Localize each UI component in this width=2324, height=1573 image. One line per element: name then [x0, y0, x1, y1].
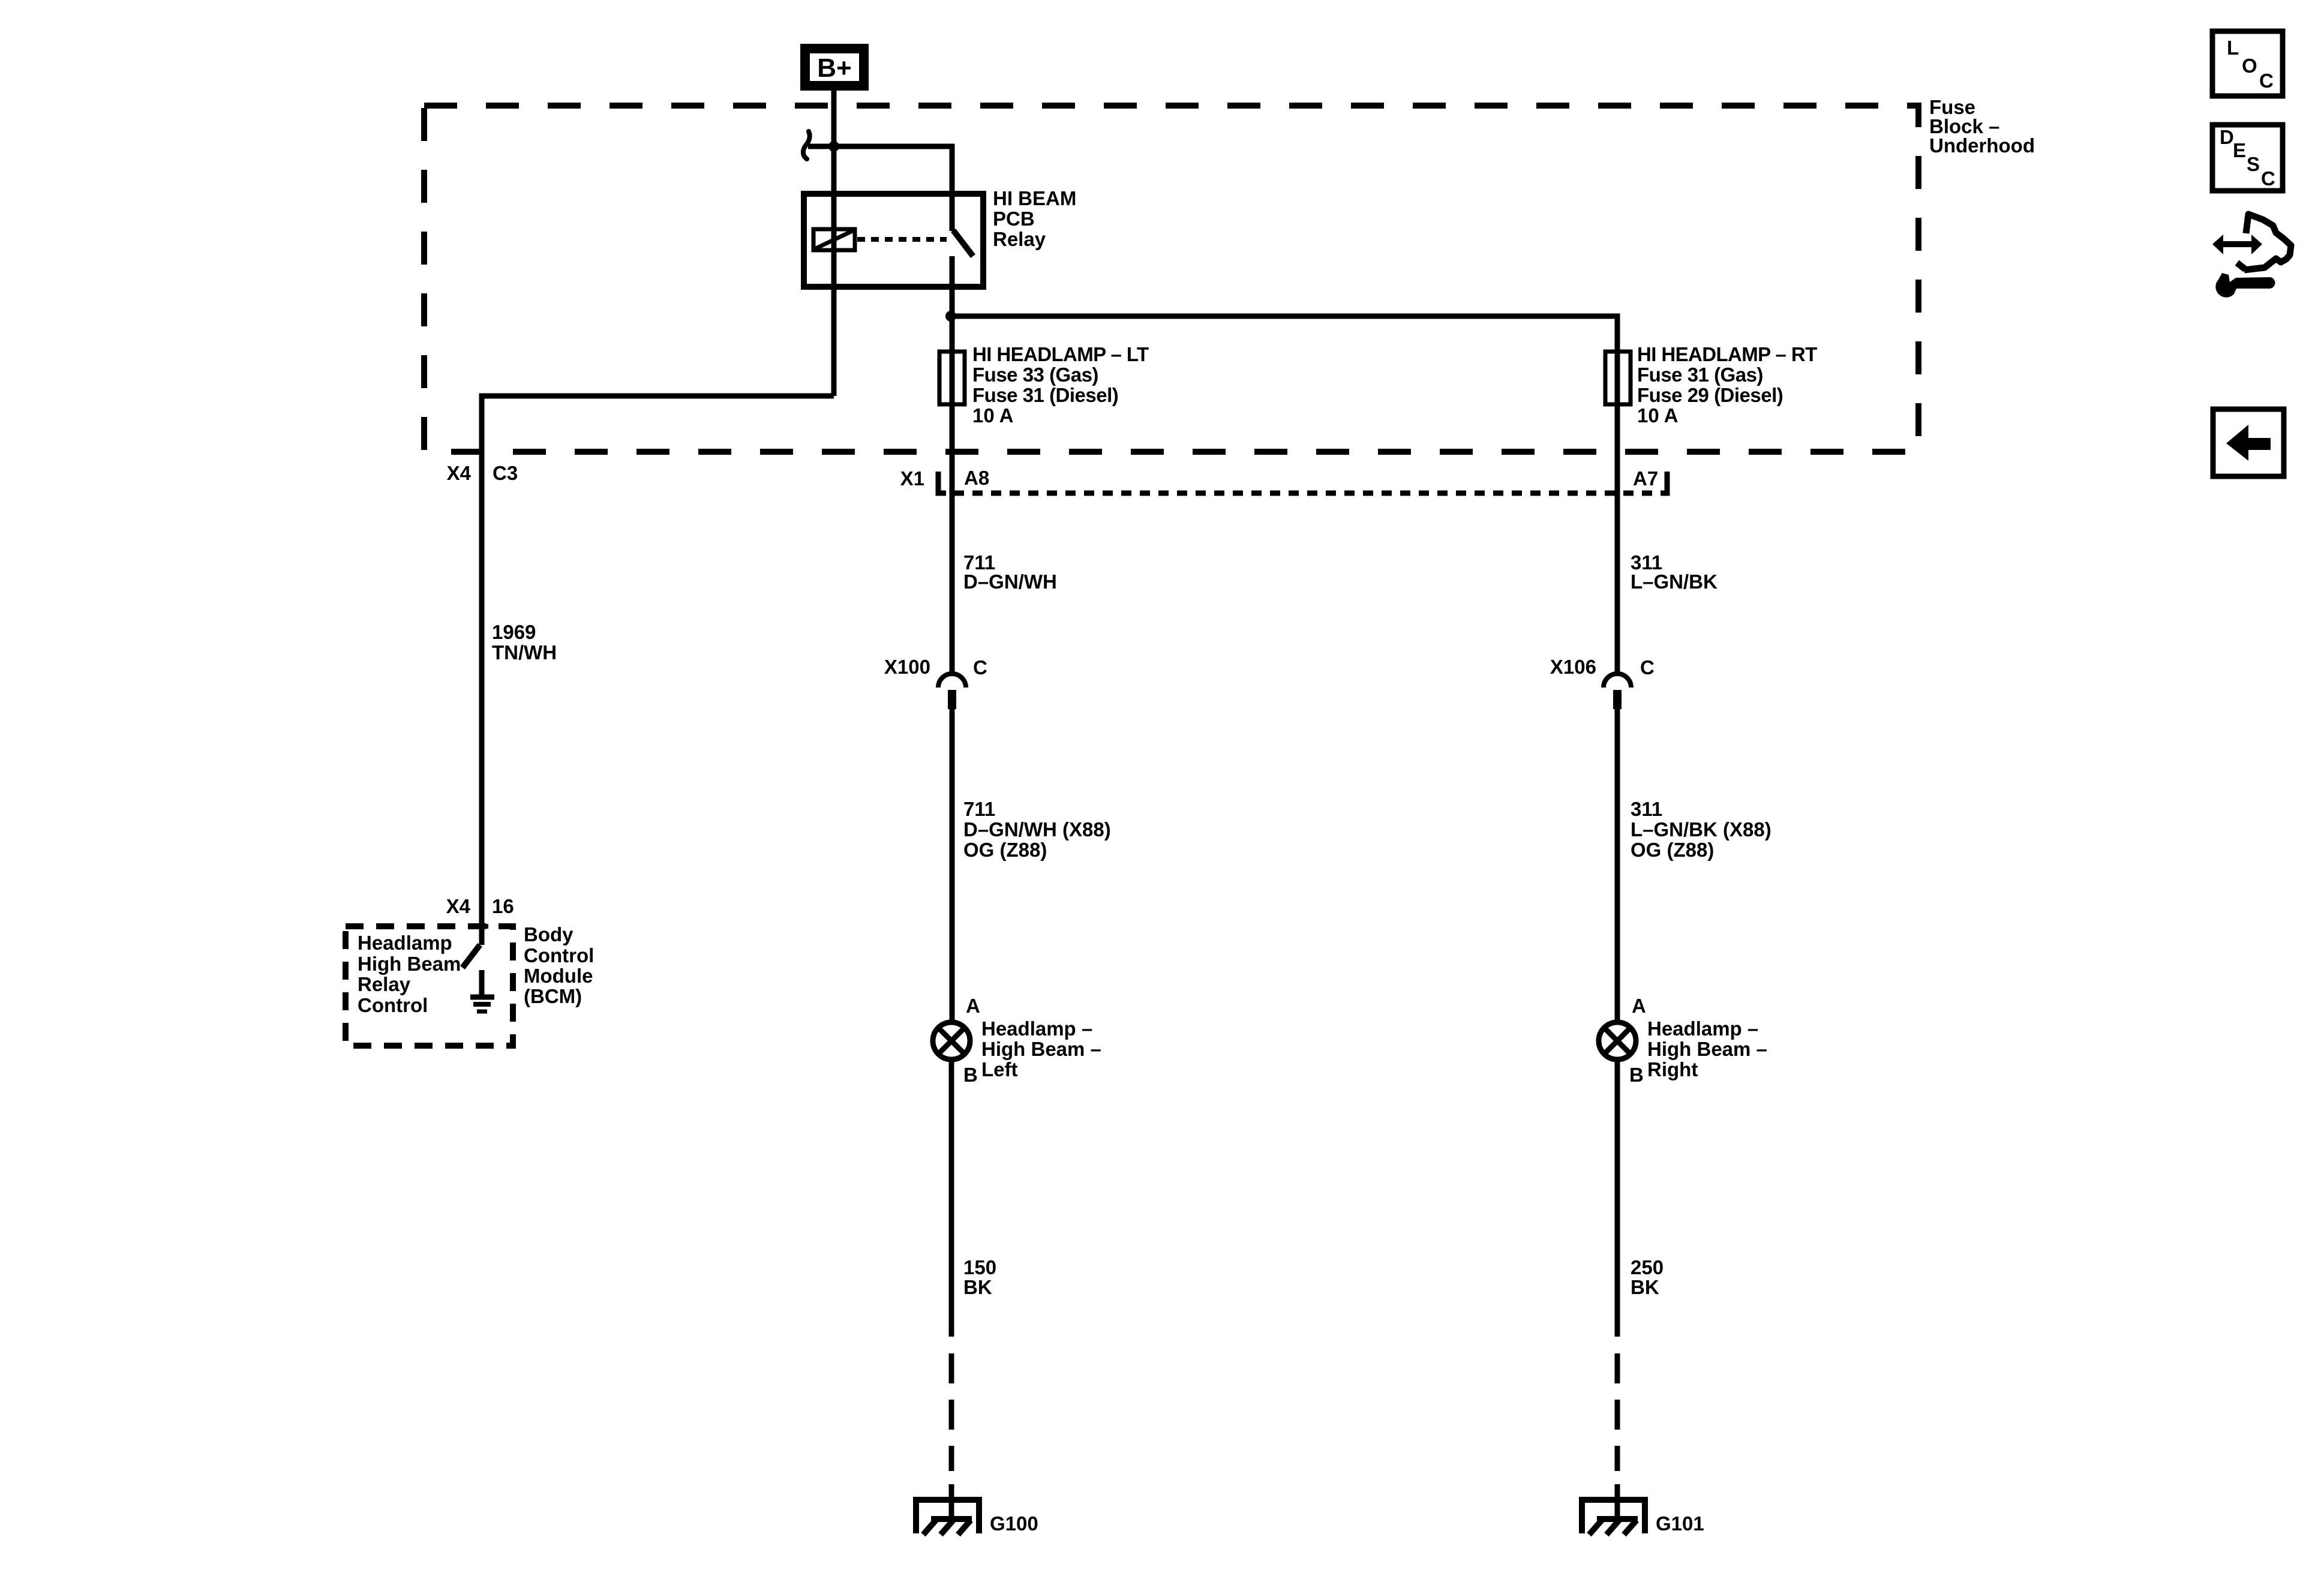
svg-text:C: C	[973, 656, 987, 679]
icon back arrow	[2213, 409, 2284, 476]
svg-text:BK: BK	[1631, 1276, 1659, 1298]
svg-text:O: O	[2242, 55, 2257, 77]
svg-text:B+: B+	[817, 53, 851, 83]
dashed ground wire right	[1615, 1353, 1620, 1471]
svg-text:B: B	[963, 1064, 978, 1086]
icon LOC	[2212, 31, 2283, 96]
svg-text:Headlamp: Headlamp	[358, 932, 452, 954]
svg-text:250: 250	[1631, 1256, 1664, 1278]
svg-text:10 A: 10 A	[1637, 404, 1678, 427]
label wire 711 D-GN/WH	[963, 551, 1057, 593]
ground G100	[913, 1497, 982, 1535]
svg-text:S: S	[2247, 153, 2260, 175]
svg-text:L–GN/BK (X88): L–GN/BK (X88)	[1631, 818, 1771, 840]
svg-text:16: 16	[492, 895, 514, 917]
svg-text:X4: X4	[447, 462, 472, 484]
wire switch to output junction, down through left fuse to X100	[950, 256, 955, 673]
svg-text:TN/WH: TN/WH	[492, 641, 557, 664]
connector line X1 A8 A7 dotted	[954, 491, 1654, 496]
svg-text:A8: A8	[964, 467, 989, 489]
wrench	[2215, 273, 2275, 298]
label wire 250 BK	[1631, 1256, 1664, 1298]
power node B+	[800, 44, 869, 91]
label fuse right	[1637, 343, 1817, 427]
connector outline	[2244, 214, 2291, 270]
junction dot at B+ branch	[828, 141, 839, 152]
svg-text:BK: BK	[963, 1276, 992, 1298]
wire stub curl to junction	[808, 144, 834, 149]
svg-text:C: C	[1640, 656, 1655, 679]
label wire 150 BK	[963, 1256, 996, 1298]
svg-text:Control: Control	[524, 944, 594, 966]
svg-text:Fuse 31 (Diesel): Fuse 31 (Diesel)	[972, 384, 1118, 406]
label wire 711 D-GN/WH (X88) OG (Z88)	[963, 798, 1111, 861]
connector X106	[1604, 674, 1631, 709]
wire X100 to left bulb	[950, 709, 955, 1022]
svg-text:A7: A7	[1633, 467, 1658, 490]
svg-text:OG (Z88): OG (Z88)	[1631, 839, 1714, 861]
label BCM	[524, 923, 594, 1007]
svg-text:D–GN/WH (X88): D–GN/WH (X88)	[963, 818, 1111, 840]
labels X1 A8 A7	[900, 467, 1659, 490]
wire relay coil to BCM	[482, 396, 834, 945]
labels X106 C	[1550, 656, 1655, 679]
svg-text:A: A	[1632, 995, 1646, 1017]
icon harness repair (arrow, connector outline, wrench)	[2212, 214, 2291, 298]
wire stub into ground left	[949, 1484, 954, 1520]
svg-text:High Beam –: High Beam –	[981, 1038, 1101, 1060]
connector X100	[938, 674, 966, 709]
svg-text:711: 711	[963, 798, 995, 820]
label bulb left	[981, 1017, 1101, 1080]
label relay	[993, 187, 1076, 250]
ground G101	[1579, 1497, 1648, 1535]
svg-text:HI BEAM: HI BEAM	[993, 187, 1076, 209]
wire stub into ground right	[1615, 1484, 1620, 1520]
fuse 33 left	[939, 352, 965, 404]
svg-text:Relay: Relay	[358, 973, 411, 995]
relay actuation dashed link	[857, 237, 947, 242]
svg-text:E: E	[2233, 139, 2246, 161]
relay box HI BEAM PCB	[804, 194, 983, 287]
pin tick at BCM	[470, 924, 488, 929]
svg-text:1969: 1969	[492, 621, 536, 643]
svg-text:Left: Left	[981, 1058, 1018, 1080]
svg-text:OG (Z88): OG (Z88)	[963, 839, 1047, 861]
bracket X1	[938, 472, 946, 493]
label fuse block underhood	[1929, 96, 2035, 157]
label wire 1969 TN/WH	[492, 621, 557, 664]
svg-text:Fuse 29 (Diesel): Fuse 29 (Diesel)	[1637, 384, 1783, 406]
label wire 311 L-GN/BK (X88) OG (Z88)	[1631, 798, 1771, 861]
label bulb right	[1647, 1017, 1767, 1080]
wire branch to right fuse, down to X106	[952, 316, 1617, 673]
svg-text:A: A	[966, 995, 980, 1017]
svg-text:Relay: Relay	[993, 228, 1046, 250]
svg-text:G100: G100	[990, 1512, 1038, 1535]
labels X100 C	[884, 656, 987, 679]
svg-text:High Beam –: High Beam –	[1647, 1038, 1767, 1060]
svg-text:X1: X1	[900, 467, 924, 490]
svg-text:C3: C3	[493, 462, 518, 484]
wire B+ down through relay coil	[831, 91, 837, 396]
bulb headlamp high beam right	[1599, 1022, 1636, 1059]
svg-text:D–GN/WH: D–GN/WH	[963, 571, 1057, 593]
svg-text:HI HEADLAMP – LT: HI HEADLAMP – LT	[972, 343, 1149, 365]
svg-text:HI HEADLAMP – RT: HI HEADLAMP – RT	[1637, 343, 1817, 365]
label connector X4 16 at BCM	[446, 895, 514, 917]
svg-text:Module: Module	[524, 965, 593, 987]
svg-text:Fuse 33 (Gas): Fuse 33 (Gas)	[972, 364, 1098, 386]
svg-text:(BCM): (BCM)	[524, 985, 582, 1007]
svg-text:Fuse 31 (Gas): Fuse 31 (Gas)	[1637, 364, 1763, 386]
svg-text:Body: Body	[524, 923, 574, 945]
BCM dashed box	[346, 926, 513, 1046]
svg-text:X106: X106	[1550, 656, 1596, 678]
svg-text:150: 150	[963, 1256, 996, 1278]
svg-text:X100: X100	[884, 656, 930, 678]
BCM internal ground	[470, 970, 494, 1011]
relay switch blade	[953, 230, 973, 256]
svg-text:D: D	[2220, 126, 2234, 148]
svg-text:High Beam: High Beam	[358, 953, 461, 975]
svg-text:Headlamp –: Headlamp –	[981, 1017, 1092, 1040]
svg-text:Right: Right	[1647, 1058, 1698, 1080]
double arrow	[2212, 235, 2262, 254]
connector outline stub	[2237, 263, 2245, 269]
svg-text:Control: Control	[358, 994, 428, 1016]
wire junction to relay switch fixed contact	[834, 146, 952, 231]
wire X106 to right bulb	[1615, 709, 1620, 1022]
icon DESC	[2212, 125, 2283, 191]
svg-text:10 A: 10 A	[972, 404, 1013, 427]
svg-text:C: C	[2261, 167, 2275, 190]
svg-text:L: L	[2227, 37, 2239, 59]
bracket A7	[1661, 472, 1667, 493]
label connector X4 C3	[447, 462, 518, 484]
fuse block underhood dashed box	[424, 106, 1918, 452]
wire bulb right to ground lead	[1615, 1059, 1620, 1337]
dashed ground wire left	[949, 1353, 954, 1471]
BCM switch blade	[463, 945, 480, 968]
fuse 31 right	[1605, 352, 1631, 404]
label fuse left	[972, 343, 1149, 427]
svg-text:PCB: PCB	[993, 208, 1035, 230]
label BCM function	[358, 932, 461, 1016]
bulb headlamp high beam left	[933, 1022, 970, 1059]
relay coil	[813, 229, 855, 250]
svg-text:Headlamp –: Headlamp –	[1647, 1017, 1758, 1040]
svg-text:G101: G101	[1656, 1512, 1704, 1535]
junction dot relay output	[945, 311, 956, 322]
svg-text:Underhood: Underhood	[1929, 134, 2035, 157]
svg-text:L–GN/BK: L–GN/BK	[1631, 571, 1718, 593]
take-out curl symbol	[803, 131, 810, 159]
svg-text:311: 311	[1631, 798, 1662, 820]
label wire 311 L-GN/BK	[1631, 551, 1718, 593]
wire bulb left to ground lead	[949, 1059, 954, 1337]
svg-text:B: B	[1629, 1064, 1644, 1086]
svg-text:X4: X4	[446, 895, 471, 917]
svg-text:C: C	[2259, 70, 2274, 92]
